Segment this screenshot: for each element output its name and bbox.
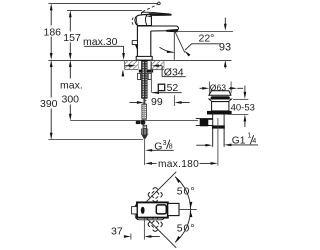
dimension 93 [224,18,226,25]
svg-text:50°: 50° [177,223,196,235]
water stream vertical line [173,32,175,60]
extension line below hose [144,139,146,165]
svg-text:300: 300 [62,94,80,106]
pop-up rod end (left of ball) [136,121,140,124]
svg-text:Ø63: Ø63 [210,82,226,92]
drain locknut (dark) [207,111,232,115]
drain seal band [211,96,230,99]
50deg arc top [175,177,190,210]
mounting deck surface extension line [49,60,232,62]
spout underside [151,30,167,32]
drain side outlet pipe [196,118,213,120]
handle position diamond bottom (dashed corner brackets) [147,216,163,232]
mounting washer under deck [139,70,153,73]
22deg angle arc [160,47,174,52]
dimension 157 [69,16,71,55]
bottom extension line (390) [49,139,144,141]
handle position diamond top (dashed corner brackets) [147,187,163,203]
svg-text:390: 390 [40,98,58,110]
dimension 390 [50,67,52,134]
water stream extension below [173,95,175,106]
extension line top (lever raised height) [49,3,158,5]
drain tailpipe [213,115,224,147]
extension line spout outlet level [177,30,233,32]
lever root shadow [145,16,151,18]
threaded shank lower (pop-up rod) [142,104,147,119]
label G3/8 [145,149,152,152]
dimension max.180 [145,162,152,165]
ball joint [140,120,145,125]
spout top [137,26,178,29]
50deg arc bottom [175,210,190,243]
top view: spout block [168,203,179,215]
dimension D63 [208,82,210,94]
svg-text:157: 157 [63,32,81,44]
hose neck [143,125,147,128]
svg-text:37: 37 [111,226,123,238]
faucet body column [136,26,138,56]
mounting bolts [138,73,141,79]
drain axis line [217,118,219,166]
svg-text:3: 3 [163,140,167,147]
svg-text:99: 99 [151,96,163,108]
aerator (dark) [166,29,178,32]
centerline right [179,208,197,210]
svg-text:G1: G1 [232,136,246,147]
dimension D34 [124,65,130,67]
handle swing dashes (left of housing) [132,18,134,26]
faucet lever (horizontal, dark blade) [141,12,171,16]
cartridge housing [135,14,151,25]
hose cone end [142,135,148,139]
label G1 1/4 + pipe thread arrows [196,144,208,146]
side outlet knurled fitting [200,119,208,126]
tailpipe compression band [212,125,225,128]
deck cross-section (hatched, with clearance hole) [125,60,139,69]
svg-text:52: 52 [167,82,179,94]
svg-text:50°: 50° [177,186,196,198]
lever arm line top [146,172,176,202]
shank joint [143,99,145,104]
pop-up rod knob (behind body) [132,41,137,45]
svg-text:40-53: 40-53 [231,103,255,114]
hose knurled end (G3/8) [141,129,148,135]
svg-text:4: 4 [252,138,256,145]
svg-text:8: 8 [169,143,173,150]
svg-text:1: 1 [247,133,251,140]
svg-text:max.: max. [60,80,83,92]
top view: base plate behind [135,203,165,220]
top view: cartridge square [156,205,166,214]
extension line 157 level [67,10,142,12]
22deg leader [185,44,220,50]
dimension 99 [130,102,140,104]
svg-text:max.180: max.180 [158,159,199,170]
lever raised position (dashed) [142,5,157,12]
dimension 40-53 [244,86,246,93]
dimension max.300 [69,67,71,115]
threaded shank upper (through deck) [142,61,148,98]
stream slant line 22deg [174,30,185,52]
svg-text:G: G [154,140,162,152]
top view: rear tab [132,207,137,214]
top view: pop-up rod (dark) [141,207,145,214]
dimension square52 [150,62,152,93]
knob circle at raised lever tip [158,2,161,5]
base flange [136,56,152,60]
svg-text:186: 186 [44,27,62,39]
svg-text:93: 93 [219,42,231,54]
svg-text:22°: 22° [199,32,215,44]
top view: faucet body (thick outline) [137,202,168,217]
pop-up rod line to drain [70,120,198,122]
lever arm line bottom [146,218,176,248]
svg-text:Ø34: Ø34 [164,66,184,78]
drain plug cap [209,91,231,96]
drain flange [209,99,232,102]
dimension 186 [50,9,52,55]
drain body cylinder [212,102,229,111]
